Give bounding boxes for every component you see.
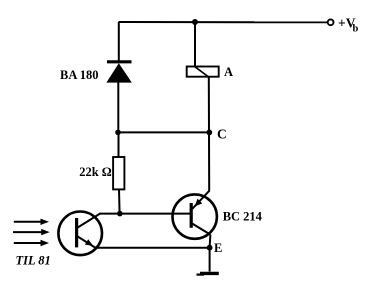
wire BC214 collector to node E [209,235,212,248]
wire relay branch vertical top [194,22,196,67]
svg-text:BA 180: BA 180 [60,68,99,82]
diode BA 180 [60,62,132,83]
wire collector row (TIL81 to BC214 base) [100,213,191,215]
wire node E to ground [209,248,211,272]
light arrow 1 [14,219,49,225]
relay coil A [187,65,233,79]
wire relay to node C and down to transistor [208,77,210,191]
node junction on top rail [192,19,198,25]
ground [197,273,219,274]
wire node row to resistor [118,132,120,157]
node C [206,127,226,142]
svg-text:TIL 81: TIL 81 [16,254,51,268]
phototransistor TIL 81 [16,212,103,268]
supply terminal +Vb [328,16,359,35]
node junction resistor/collector [117,211,123,217]
resistor 22k [79,157,124,189]
svg-text:b: b [353,24,359,35]
wire top rail [119,21,328,23]
wire node C row horizontal [118,131,209,133]
svg-text:22k Ω: 22k Ω [79,165,112,179]
node junction left of C row [115,130,121,136]
svg-text:E: E [214,241,222,255]
svg-text:A: A [224,65,233,79]
svg-text:C: C [217,127,227,142]
light arrow 2 [13,229,50,235]
transistor BC 214 [173,191,263,239]
wire left vertical (rail to diode) [118,22,120,62]
svg-text:BC 214: BC 214 [223,209,263,223]
light arrow 3 [14,240,49,246]
node E [207,241,223,255]
wire emitter row (TIL81 to node E) [96,247,210,249]
wire diode to node C row [117,82,119,133]
wire resistor to junction [118,189,121,214]
